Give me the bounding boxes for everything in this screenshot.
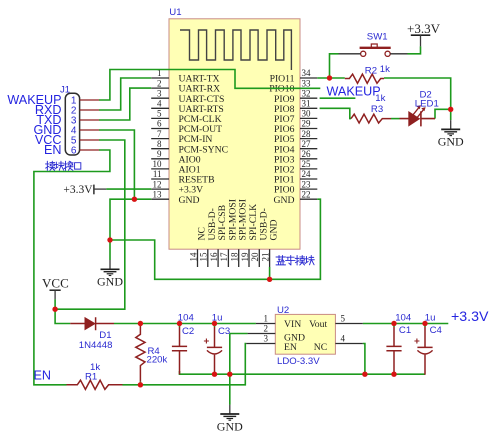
U1 pin 6 (PCM-OUT) stub + number + name xyxy=(151,119,222,135)
ground symbol (left of U1) xyxy=(97,260,123,289)
svg-text:+3.3V: +3.3V xyxy=(63,184,93,196)
wire VCC port stem down to D1 anode xyxy=(55,299,70,323)
junction R1/R4/EN rail xyxy=(138,382,143,387)
svg-text:7: 7 xyxy=(157,129,162,139)
U1 pin 27 (PIO4) stub + number + name xyxy=(274,139,317,155)
svg-text:15: 15 xyxy=(199,252,209,262)
U2 pin 5 Vout xyxy=(309,314,363,331)
power port +3.3V (left, at U1 pin12) xyxy=(63,184,106,196)
wire WAKEUP net: J1.1 up over U1 to pin33 PIO10 xyxy=(99,70,320,101)
U1 pin 21 (GND) bottom stub + number + name xyxy=(260,220,279,268)
junction VCC node xyxy=(52,307,57,312)
U1 pin 12 (+3.3V) stub + number + name xyxy=(151,179,203,195)
svg-text:R3: R3 xyxy=(371,104,383,115)
U2 pin 2 GND xyxy=(248,324,305,344)
junction SW1/R2/PIO11 xyxy=(327,75,332,80)
junction C3 top xyxy=(212,321,217,326)
svg-text:27: 27 xyxy=(302,139,312,149)
svg-text:17: 17 xyxy=(219,252,229,262)
wire GND: J1.4 down to pin13 node xyxy=(99,130,134,199)
U1 pin 15 (USB-D-) bottom stub + number + name xyxy=(199,208,218,267)
svg-text:GND: GND xyxy=(217,419,243,433)
svg-text:C4: C4 xyxy=(430,325,443,336)
label 模块接口 (module interface) under J1 xyxy=(46,161,81,170)
svg-text:34: 34 xyxy=(302,68,312,78)
resistor R3 1k xyxy=(351,114,391,123)
junction C2 top xyxy=(177,321,182,326)
ground symbol (top right near LED) xyxy=(438,120,464,149)
svg-text:24: 24 xyxy=(302,169,312,179)
U1 pin 23 (PIO0) stub + number + name xyxy=(274,179,317,195)
svg-text:28: 28 xyxy=(302,129,312,139)
wire pin34 PIO11 to R2 left xyxy=(317,77,345,79)
svg-text:1N4448: 1N4448 xyxy=(79,340,113,351)
svg-text:GND: GND xyxy=(438,135,464,149)
U1 pin 17 (SPI-MOSI) bottom stub + number + name xyxy=(219,199,238,267)
svg-text:3: 3 xyxy=(264,334,269,344)
U1 pin 32 (PIO9) stub + number + name xyxy=(274,88,317,104)
U1 pin 26 (PIO3) stub + number + name xyxy=(274,149,317,165)
svg-text:104: 104 xyxy=(395,312,412,323)
svg-text:10: 10 xyxy=(153,159,163,169)
svg-text:GND: GND xyxy=(97,275,123,289)
svg-text:GND: GND xyxy=(269,220,280,241)
svg-text:16: 16 xyxy=(209,252,219,262)
svg-text:30: 30 xyxy=(302,109,312,119)
wire SW1 left leg down to WAKEUP/R2 node xyxy=(330,54,339,78)
svg-text:Vout: Vout xyxy=(309,319,327,330)
svg-text:WAKEUP: WAKEUP xyxy=(327,85,381,99)
svg-text:20: 20 xyxy=(250,252,260,262)
svg-text:VIN: VIN xyxy=(284,319,301,330)
svg-text:GND: GND xyxy=(179,195,200,206)
svg-text:U2: U2 xyxy=(277,305,289,316)
U1 pin 4 (UART-RTS) stub + number + name xyxy=(151,99,224,115)
svg-text:25: 25 xyxy=(302,159,312,169)
svg-text:19: 19 xyxy=(240,252,250,262)
U1 pin 10 (AIO1) stub + number + name xyxy=(151,159,201,175)
svg-text:LED1: LED1 xyxy=(415,99,439,110)
U1 pin 24 (PIO1) stub + number + name xyxy=(274,169,317,185)
diode D1 1N4448 xyxy=(70,317,114,330)
svg-text:18: 18 xyxy=(230,252,240,262)
svg-text:J1: J1 xyxy=(60,84,70,95)
push button SW1 xyxy=(339,44,408,56)
capacitor C4 1u (polarized) xyxy=(414,324,432,375)
svg-text:2: 2 xyxy=(264,324,269,334)
svg-text:5: 5 xyxy=(157,109,162,119)
svg-text:C3: C3 xyxy=(218,326,230,337)
wire U2 pin4 NC drop to ground rail xyxy=(363,344,365,375)
svg-text:26: 26 xyxy=(302,149,312,159)
svg-text:9: 9 xyxy=(157,149,162,159)
capacitor C3 1u (polarized) xyxy=(204,324,222,375)
U1 pin 28 (PIO5) stub + number + name xyxy=(274,129,317,145)
svg-text:3: 3 xyxy=(157,88,162,98)
svg-text:1k: 1k xyxy=(90,362,100,373)
J1 pin 5 number + stub xyxy=(71,136,99,147)
wire EN rail: R1/R4 junction to U2 pin3 EN xyxy=(123,344,247,385)
svg-text:1k: 1k xyxy=(380,64,390,75)
capacitor C1 104 xyxy=(386,324,401,375)
wire pin32 PIO9 stub wire xyxy=(320,97,356,99)
svg-text:R2: R2 xyxy=(365,65,377,76)
junction GND node A xyxy=(107,237,112,242)
wire EN: J1.6 down left side to R1 xyxy=(34,150,110,385)
svg-text:14: 14 xyxy=(188,252,198,262)
U1 pin 20 (USB-D-) bottom stub + number + name xyxy=(250,208,269,267)
svg-text:EN: EN xyxy=(284,342,297,353)
junction C1 top xyxy=(391,321,396,326)
svg-text:13: 13 xyxy=(153,189,163,199)
svg-text:31: 31 xyxy=(302,99,311,109)
U1 pin 31 (PIO8) stub + number + name xyxy=(274,99,317,115)
regulator U2 LDO-3.3V body xyxy=(275,314,335,354)
svg-text:6: 6 xyxy=(71,146,77,157)
U1 pin 7 (PCM-IN) stub + number + name xyxy=(151,129,212,145)
J1 pin 1 number + stub xyxy=(71,96,99,107)
wire VIN rail: D1 cathode to R4/C2/C3/U2 VIN xyxy=(114,323,256,325)
svg-text:C1: C1 xyxy=(399,325,411,336)
resistor R2 1k xyxy=(345,74,384,83)
svg-text:1: 1 xyxy=(264,314,269,324)
svg-text:8: 8 xyxy=(157,139,162,149)
svg-text:+3.3V: +3.3V xyxy=(407,21,441,36)
U1 pin 8 (PCM-SYNC) stub + number + name xyxy=(151,139,228,155)
wire GND: U1 pin21 drop to rail xyxy=(269,267,271,279)
svg-text:EN: EN xyxy=(44,143,62,157)
power port VCC xyxy=(42,276,69,300)
wire U2 GND drop through rail to ground symbol xyxy=(229,334,231,405)
wire SW1 right leg to +3.3V port xyxy=(408,46,421,53)
svg-text:6: 6 xyxy=(157,119,162,129)
svg-text:2: 2 xyxy=(157,78,162,88)
wire RXD: J1.2 to U1 pin1 UART-TX xyxy=(99,78,151,110)
U2 pin 1 VIN xyxy=(256,314,301,331)
LED D2 LED1 xyxy=(400,105,436,126)
svg-text:33: 33 xyxy=(302,78,312,88)
U1 pin 5 (PCM-CLK) stub + number + name xyxy=(151,109,221,125)
U1 pin 30 (PIO7) stub + number + name xyxy=(274,109,317,125)
U2 pin 4 NC xyxy=(314,334,363,354)
connector J1 body xyxy=(65,93,79,155)
wire bottom GND rail C2..C4 xyxy=(180,371,426,374)
op-amp U1 body (Bluetooth module IC) xyxy=(169,19,300,249)
junction U2 GND on rail xyxy=(227,372,232,377)
svg-text:NC: NC xyxy=(314,342,327,353)
wire +3.3V label to U1 pin12 xyxy=(106,188,151,190)
junction NC drop on rail xyxy=(362,372,367,377)
svg-text:29: 29 xyxy=(302,119,312,129)
svg-text:+3.3V: +3.3V xyxy=(451,309,489,325)
ground symbol (below U2) xyxy=(217,405,243,434)
svg-text:11: 11 xyxy=(153,169,162,179)
label 蓝牙模块 (Bluetooth module) near U1 xyxy=(276,256,314,266)
U1 pin 18 (SPI-MOSI) bottom stub + number + name xyxy=(230,199,249,267)
junction LED cathode to GND drop xyxy=(448,107,453,112)
svg-text:R1: R1 xyxy=(85,371,97,382)
power port +3.3V (top right) xyxy=(407,21,441,47)
wire TXD: J1.3 to U1 pin2 UART-RX xyxy=(99,88,151,120)
svg-text:4: 4 xyxy=(157,99,162,109)
wire GND: U1 pin13 to ground node xyxy=(110,199,151,240)
svg-text:22: 22 xyxy=(302,189,311,199)
wire +3.3V output rail: U2 pin5 to C1/C4/label xyxy=(363,323,449,325)
svg-text:21: 21 xyxy=(260,253,270,262)
wire pin31 PIO8 to R3 xyxy=(320,108,351,118)
junction C1 bottom xyxy=(391,372,396,377)
svg-text:C2: C2 xyxy=(182,326,194,337)
junction C3 bottom xyxy=(212,372,217,377)
svg-text:4: 4 xyxy=(341,334,346,344)
junction R4 top on VIN rail xyxy=(138,321,143,326)
svg-text:23: 23 xyxy=(302,179,312,189)
junction U1 pin21 on GND rail xyxy=(267,277,272,282)
wire U2 pin2 GND stub wire xyxy=(230,333,248,335)
U1 pin 3 (UART-CTS) stub + number + name xyxy=(151,88,224,104)
wire R3 to LED anode xyxy=(391,118,400,120)
resistor R1 1k xyxy=(67,380,123,389)
wire GND rail under U1 to pins 21/22 xyxy=(110,199,320,279)
U1 pin 16 (SPI-CSB) bottom stub + number + name xyxy=(209,205,228,267)
junction J1.4 + U1 pin13 GND xyxy=(132,197,137,202)
U1 pin 34 (PIO11) stub + number + name xyxy=(270,68,318,84)
antenna meander symbol inside U1 xyxy=(180,30,291,70)
capacitor C2 104 xyxy=(172,324,187,375)
U1 pin 9 (AIO0) stub + number + name xyxy=(151,149,201,165)
svg-text:LDO-3.3V: LDO-3.3V xyxy=(277,356,320,367)
U1 pin 14 (NC) bottom stub + number + name xyxy=(188,227,207,267)
U2 pin 3 EN xyxy=(246,334,297,354)
U1 pin 13 (GND) stub + number + name xyxy=(151,189,199,205)
junction C4 top xyxy=(422,321,427,326)
svg-text:5: 5 xyxy=(341,314,346,324)
svg-text:U1: U1 xyxy=(169,7,181,18)
svg-text:220k: 220k xyxy=(147,355,168,366)
U1 pin 33 (PIO10) stub + number + name xyxy=(269,78,317,94)
svg-text:12: 12 xyxy=(153,179,162,189)
resistor R4 220k (vertical) xyxy=(136,324,145,382)
svg-text:EN: EN xyxy=(34,369,52,383)
wire LED cathode elbow to GND vertical xyxy=(435,109,451,118)
wire VCC: J1.5 down to VCC rail xyxy=(55,140,125,309)
svg-text:VCC: VCC xyxy=(42,276,69,291)
U1 pin 25 (PIO2) stub + number + name xyxy=(274,159,317,175)
U1 pin 19 (SPI-CLK) bottom stub + number + name xyxy=(240,204,259,267)
svg-text:GND: GND xyxy=(274,195,295,206)
U1 pin 11 (RESETB) stub + number + name xyxy=(151,169,214,185)
wire R2 right to GND (top right) xyxy=(384,78,451,120)
J1 pin 6 number + stub xyxy=(71,146,99,157)
svg-text:SW1: SW1 xyxy=(367,31,388,42)
J1 pin 4 number + stub xyxy=(71,126,99,137)
svg-text:32: 32 xyxy=(302,88,311,98)
U1 pin 22 (GND) stub + number + name xyxy=(274,189,318,205)
J1 pin 3 number + stub xyxy=(71,116,99,127)
wire: GND stem below node A xyxy=(109,240,111,260)
U1 pin 29 (PIO6) stub + number + name xyxy=(274,119,317,135)
U1 pin 1 (UART-TX) stub + number + name xyxy=(151,68,219,84)
J1 pin 2 number + stub xyxy=(71,106,99,117)
U1 pin 2 (UART-RX) stub + number + name xyxy=(151,78,220,94)
